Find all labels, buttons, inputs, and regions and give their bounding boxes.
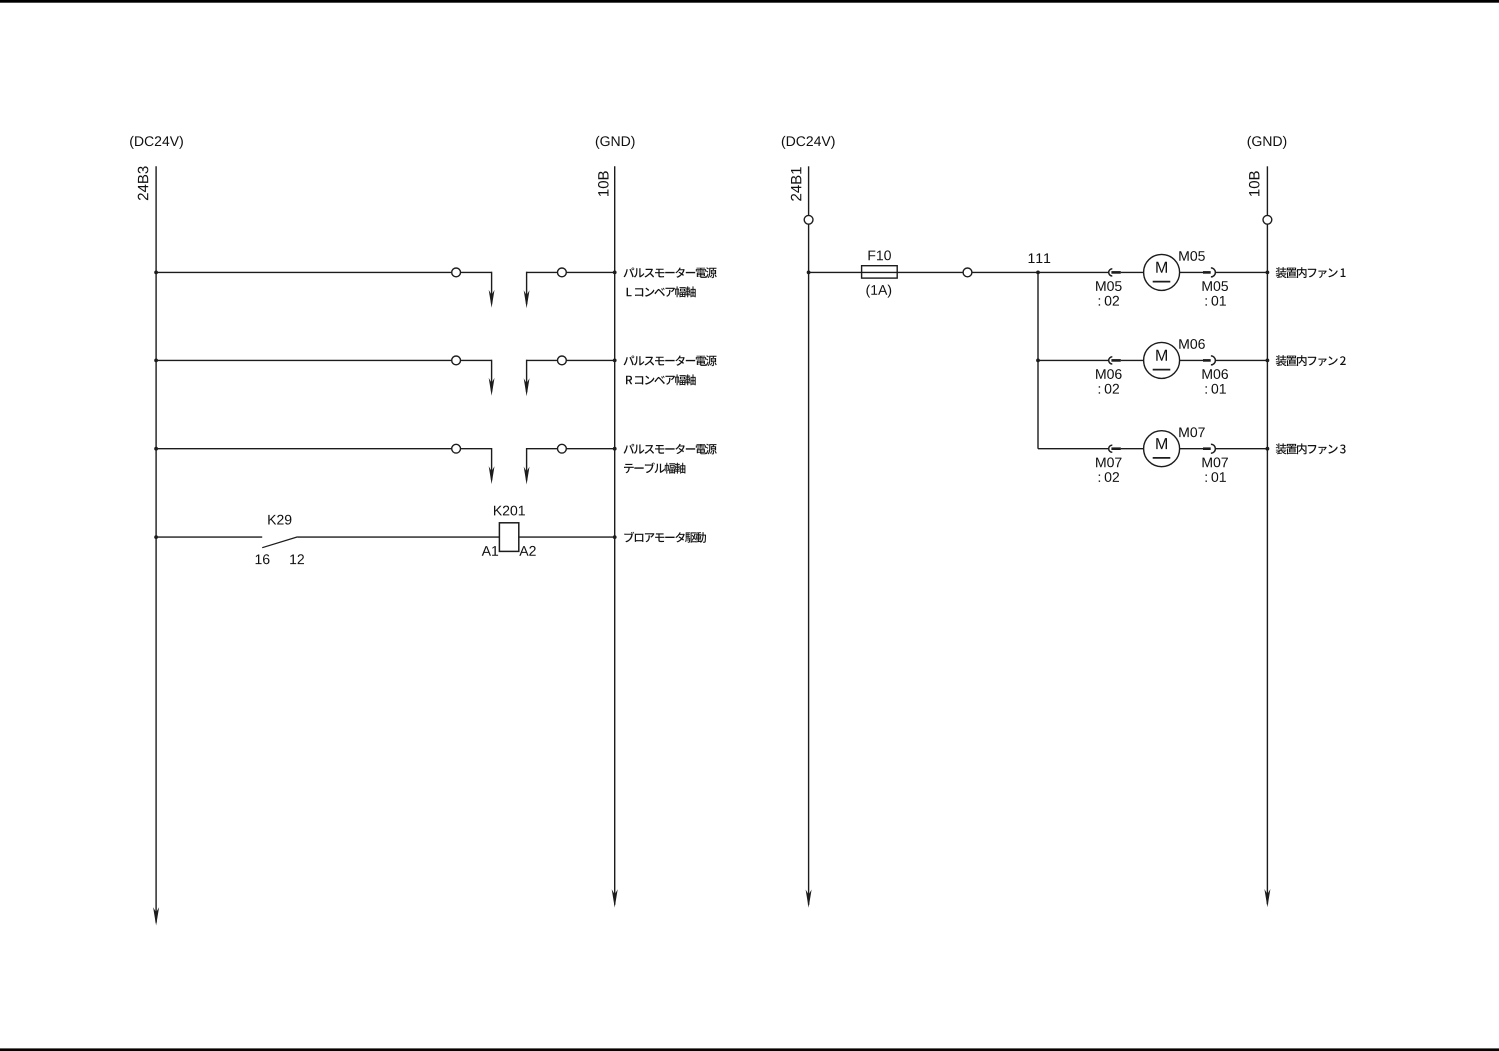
- label 装置内ファン3: [1276, 443, 1346, 454]
- terminal circle rung 3 left: [452, 444, 461, 453]
- ground label (GND) left page: [596, 136, 635, 149]
- connector socket M07:01 arc: [1211, 444, 1216, 453]
- fuse F10 designator: [869, 250, 891, 260]
- connector label M07 right line 1: [1203, 457, 1228, 467]
- coil K201 designator: [494, 506, 525, 516]
- terminal circle on bus 24B1: [804, 215, 813, 224]
- label rung 4 ブロアモータ駆動: [624, 532, 706, 543]
- wire connector to bus 10B fan 3: [1216, 448, 1268, 450]
- node on bus 10B rung 3: [613, 447, 617, 451]
- bus 10B right page end arrow: [1264, 889, 1270, 907]
- wire rung 2 terminal to corner: [461, 359, 492, 361]
- motor M07 letter M: [1156, 438, 1167, 449]
- wire rung 1 drop right: [526, 272, 528, 304]
- bus wire 10B (GND) left page: [614, 166, 616, 904]
- wire motor M07 to connector pin: [1180, 448, 1203, 450]
- node 111 label: [1029, 253, 1051, 263]
- node on bus 24B3 rung 3: [154, 447, 158, 451]
- wire rung 1 drop left: [491, 272, 493, 304]
- connector arrow rung 1 left: [489, 290, 495, 308]
- connector socket M05:02 arc: [1109, 269, 1113, 276]
- connector socket M06:01 arc: [1211, 356, 1216, 365]
- node on bus 24B1 fan feed: [807, 271, 811, 275]
- wire connector to motor M06: [1121, 359, 1144, 361]
- pin A2 of K201: [519, 546, 535, 556]
- connector label M06 right line 1: [1203, 369, 1229, 379]
- connector socket M06:02 arc: [1109, 357, 1113, 364]
- pin A1 of K201: [482, 546, 498, 556]
- node on bus 24B3 rung 2: [154, 359, 158, 363]
- net name 24B3: [138, 166, 149, 200]
- wire from K201 to bus 10B: [519, 536, 615, 538]
- bus 24B1 end arrow: [806, 890, 812, 908]
- wire rung 3 corner to terminal: [527, 448, 558, 450]
- connector arrow rung 2 left: [489, 378, 495, 396]
- connector label M07 left line 2: [1099, 472, 1119, 482]
- node on bus 10B rung 2: [613, 359, 617, 363]
- power label (DC24V) right page: [782, 136, 835, 149]
- motor designator M06: [1179, 339, 1205, 349]
- motor M05 circle: [1144, 254, 1180, 290]
- wire bus 24B1 to fuse F10: [809, 271, 862, 273]
- motor M06 circle: [1144, 342, 1180, 378]
- net name 10B right page: [1249, 171, 1260, 196]
- connector label M05 right line 2: [1206, 296, 1226, 306]
- wire rung 2 drop right: [526, 360, 528, 392]
- wire fuse F10 to terminal: [897, 271, 963, 273]
- motor M07 circle: [1144, 431, 1180, 467]
- connector arrow rung 1 right: [524, 290, 530, 308]
- contact K29 designator: [268, 515, 291, 525]
- wire from K29 to coil K201: [298, 536, 500, 538]
- connector pin M05:02 bar: [1111, 271, 1120, 274]
- node on bus 10B rung 4: [613, 535, 617, 539]
- wire rung 1 corner to terminal: [527, 271, 558, 273]
- wire motor M06 to connector pin: [1180, 359, 1203, 361]
- motor designator M07: [1179, 427, 1204, 437]
- ground label (GND) right page: [1248, 136, 1287, 149]
- node 111 junction: [1036, 271, 1040, 275]
- connector socket M07:02 arc: [1109, 445, 1113, 452]
- wire rung 4 from bus to contact K29: [156, 536, 262, 538]
- connector socket M05:01 arc: [1211, 268, 1216, 277]
- connector arrow rung 3 left: [489, 466, 495, 484]
- node on bus 24B3 rung 1: [154, 271, 158, 275]
- wire rung 1 from bus 24B3 to terminal: [156, 271, 452, 273]
- terminal circle on bus 10B right page: [1263, 215, 1272, 224]
- wire terminal to node 111: [972, 271, 1038, 273]
- net name 10B left page: [598, 171, 609, 196]
- border frame bottom: [0, 1048, 1499, 1051]
- wire node 111 vertical feeder: [1037, 272, 1039, 448]
- wire connector to bus 10B fan 2: [1216, 359, 1268, 361]
- label 装置内ファン1: [1276, 267, 1346, 278]
- power label (DC24V) left page: [130, 136, 183, 149]
- bus wire 10B right page lower segment: [1266, 224, 1268, 904]
- connector pin M06:02 bar: [1111, 359, 1120, 362]
- label rung 1 line 2: [627, 286, 696, 297]
- terminal circle rung 2 left: [452, 356, 461, 365]
- terminal circle after fuse: [963, 268, 972, 277]
- label rung 2 line 2: [626, 374, 696, 385]
- bus 10B end arrow: [612, 889, 618, 907]
- pin number 16 of K29: [256, 554, 270, 564]
- node on bus 10B fan 3: [1266, 447, 1270, 451]
- wire branch M07 to connector: [1038, 448, 1109, 450]
- node on bus 10B fan 2: [1266, 359, 1270, 363]
- bus wire 24B1 lower segment: [808, 224, 810, 905]
- wire through fuse F10: [862, 271, 898, 273]
- wire rung 3 terminal to bus 10B: [566, 448, 614, 450]
- label rung 1 line 1 パルスモーター電源: [624, 267, 717, 278]
- wire rung 1 terminal to bus 10B: [566, 271, 614, 273]
- bus 24B3 end arrow: [153, 907, 159, 925]
- label rung 3 line 2: [624, 463, 685, 474]
- bus wire 10B right page upper segment: [1266, 166, 1268, 215]
- connector label M05 left line 2: [1099, 296, 1119, 306]
- wire rung 3 drop right: [526, 448, 528, 480]
- motor M05 underline: [1153, 281, 1171, 283]
- relay coil K201: [499, 523, 518, 552]
- wire rung 2 terminal to bus 10B: [566, 359, 614, 361]
- pin number 12 of K29: [290, 554, 304, 564]
- connector arrow rung 2 right: [524, 378, 530, 396]
- wire motor M05 to connector pin: [1180, 271, 1203, 273]
- terminal circle rung 3 right: [558, 444, 567, 453]
- motor designator M05: [1179, 251, 1205, 261]
- wire rung 2 from bus 24B3 to terminal: [156, 359, 452, 361]
- label rung 3 line 1 パルスモーター電源: [624, 444, 717, 455]
- connector pin M07:02 bar: [1111, 447, 1120, 450]
- connector label M06 right line 2: [1206, 384, 1226, 394]
- wire branch M05 to connector: [1038, 271, 1109, 273]
- wire rung 1 terminal to corner: [461, 271, 492, 273]
- terminal circle rung 2 right: [558, 356, 567, 365]
- motor M07 underline: [1153, 457, 1171, 459]
- wire connector to motor M05: [1121, 271, 1144, 273]
- motor M05 letter M: [1156, 262, 1167, 273]
- connector pin M07:01 bar: [1203, 447, 1211, 450]
- wire rung 3 from bus 24B3 to terminal: [156, 448, 452, 450]
- fuse F10 body: [862, 266, 898, 278]
- fuse F10 rating (1A): [866, 285, 891, 298]
- wire branch M06 to connector: [1038, 359, 1109, 361]
- wire connector to bus 10B fan 1: [1216, 271, 1268, 273]
- connector pin M05:01 bar: [1203, 271, 1211, 274]
- contact K29 blade: [262, 537, 297, 548]
- wire connector to motor M07: [1121, 448, 1144, 450]
- border frame top: [0, 0, 1499, 3]
- connector label M05 left line 1: [1096, 281, 1122, 291]
- label rung 2 line 1 パルスモーター電源: [624, 355, 717, 366]
- connector label M05 right line 1: [1203, 281, 1229, 291]
- motor M06 letter M: [1156, 350, 1167, 361]
- net name 24B1: [791, 167, 802, 201]
- label 装置内ファン2: [1276, 355, 1346, 366]
- connector pin M06:01 bar: [1203, 359, 1211, 362]
- connector label M06 left line 1: [1096, 369, 1122, 379]
- motor M06 underline: [1153, 369, 1171, 371]
- node on bus 24B3 rung 4: [154, 535, 158, 539]
- wire rung 3 drop left: [491, 448, 493, 480]
- node on bus 10B fan 1: [1266, 271, 1270, 275]
- node junction fan branch 2: [1036, 359, 1040, 363]
- wire rung 2 corner to terminal: [527, 359, 558, 361]
- wire rung 2 drop left: [491, 360, 493, 392]
- connector label M07 right line 2: [1206, 472, 1226, 482]
- connector label M06 left line 2: [1099, 384, 1119, 394]
- bus wire 24B1 upper segment: [808, 166, 810, 215]
- connector label M07 left line 1: [1096, 457, 1121, 467]
- node on bus 10B rung 1: [613, 271, 617, 275]
- connector arrow rung 3 right: [524, 467, 530, 485]
- wire rung 3 terminal to corner: [461, 448, 492, 450]
- terminal circle rung 1 left: [452, 268, 461, 277]
- bus wire 24B3 (DC24V) left page: [155, 166, 157, 922]
- terminal circle rung 1 right: [558, 268, 567, 277]
